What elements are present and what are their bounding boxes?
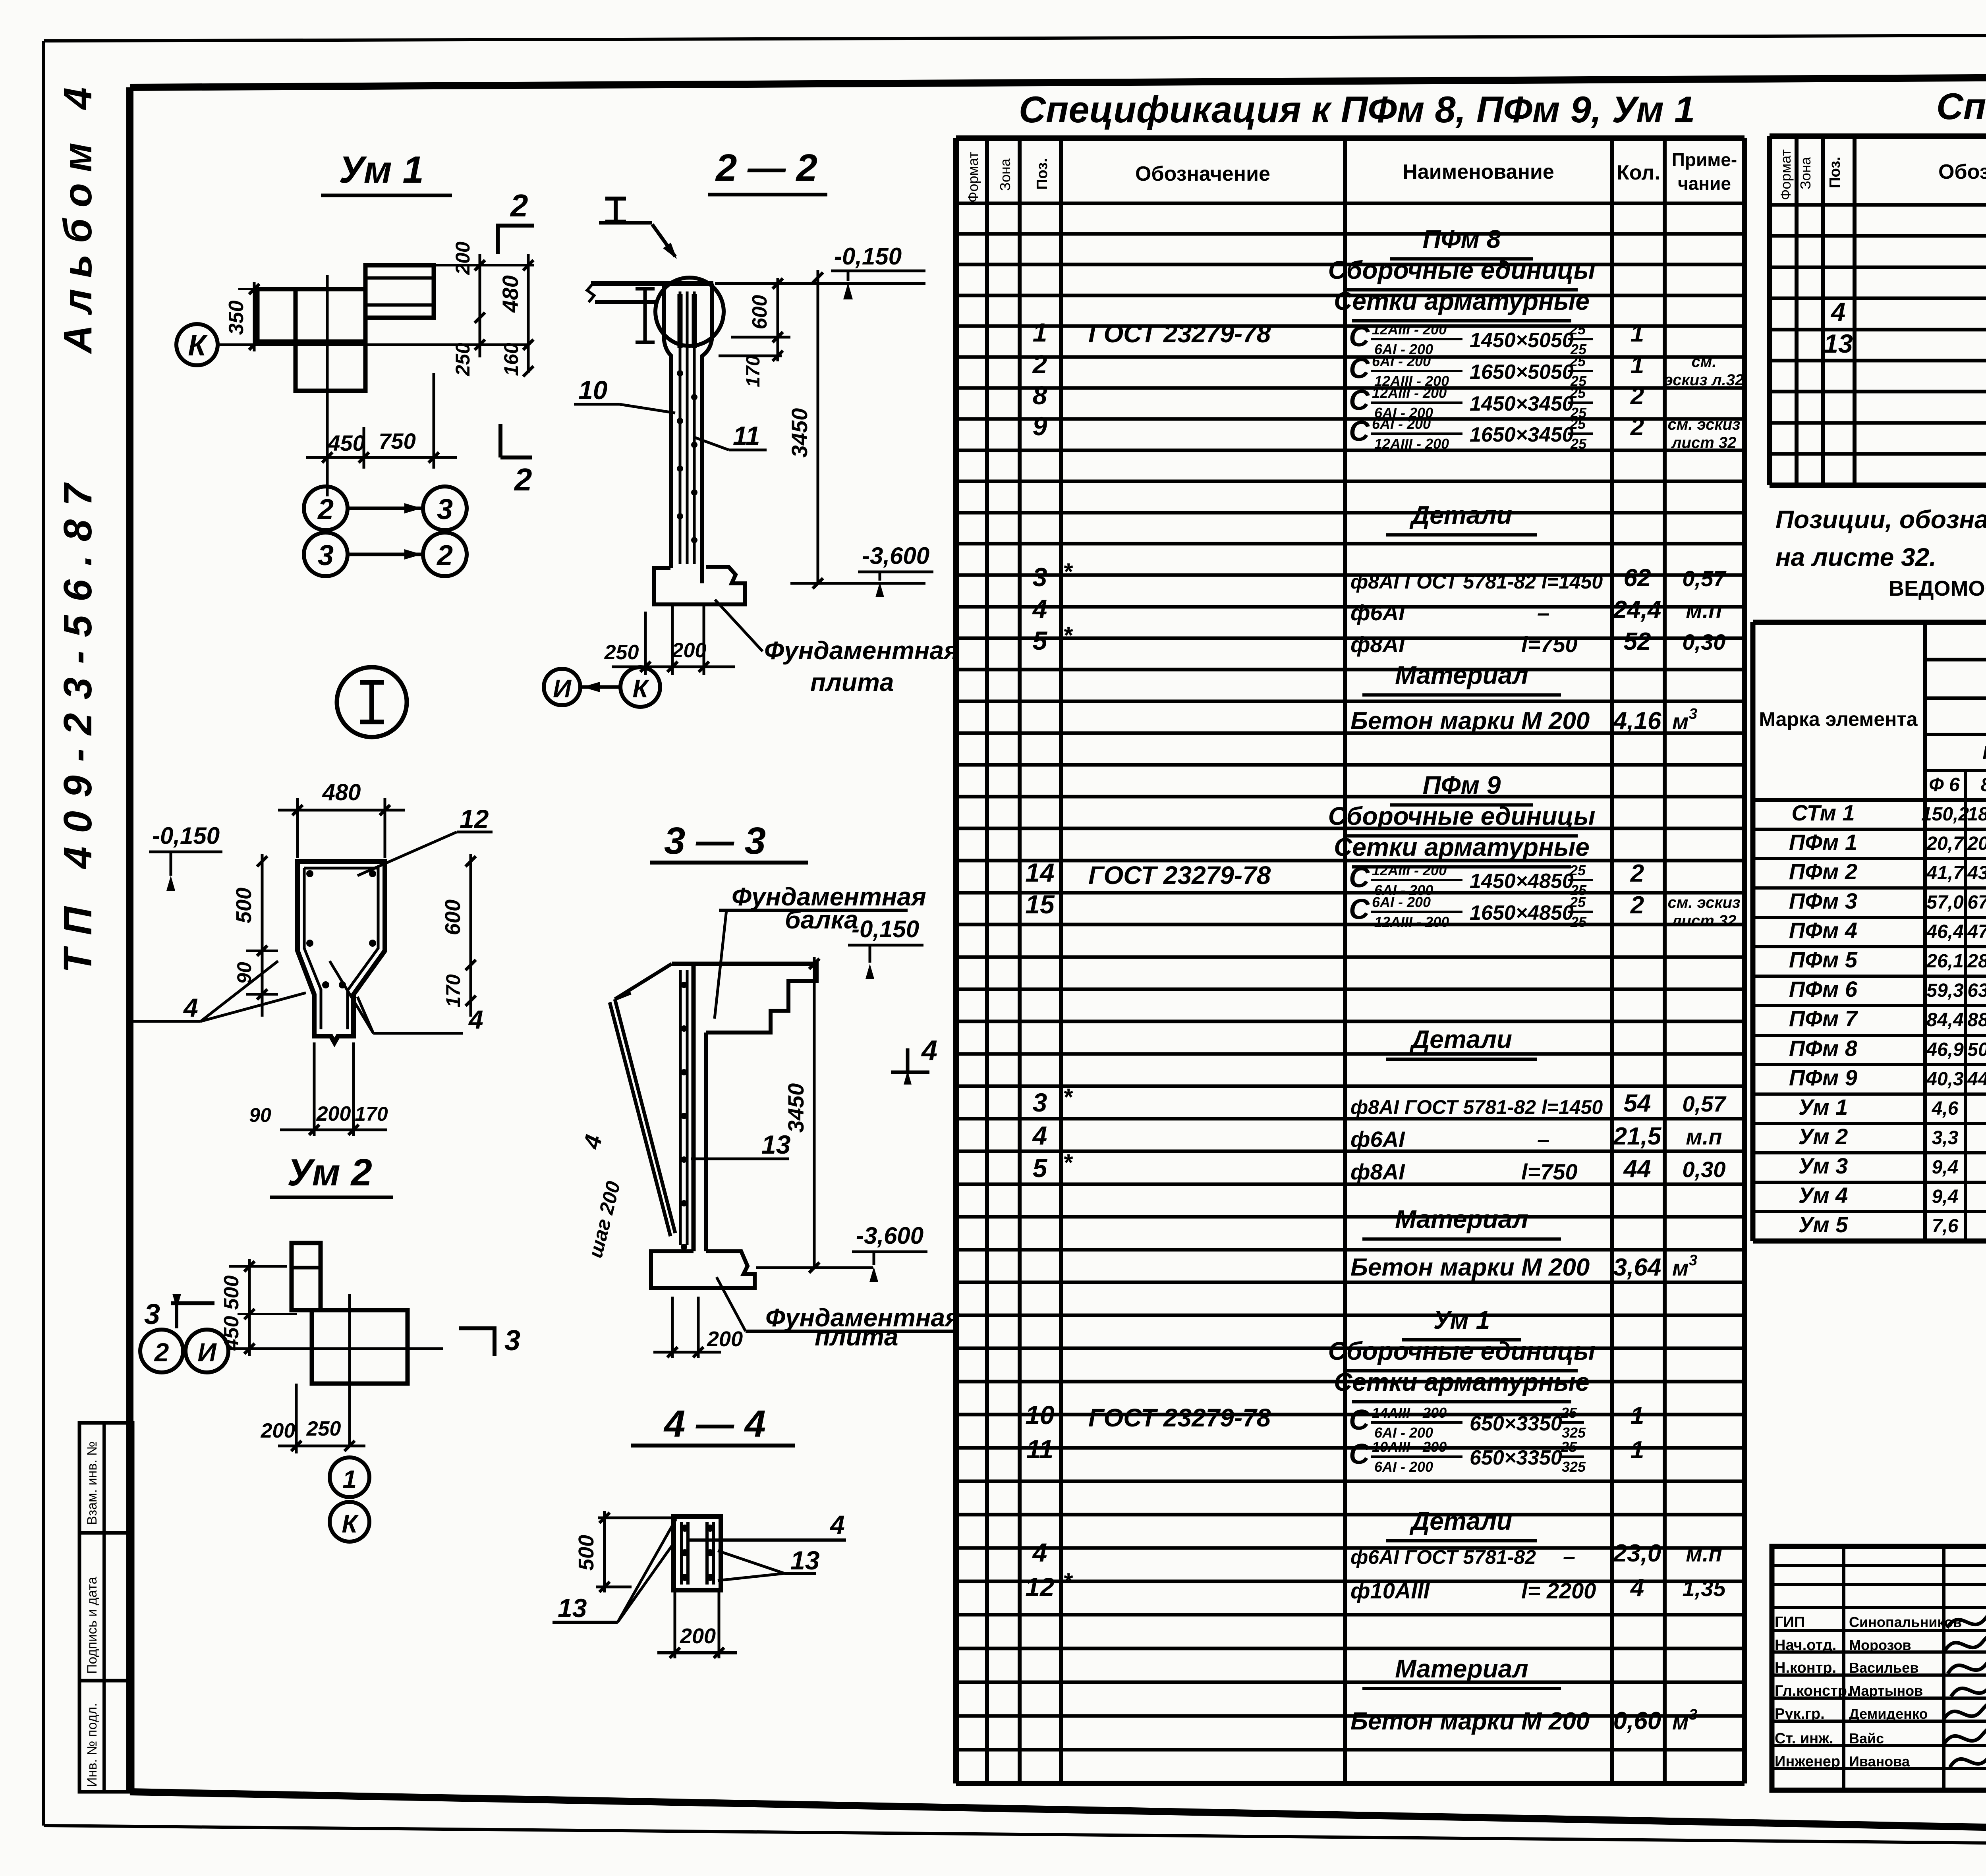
svg-text:25: 25 <box>1570 914 1587 930</box>
svg-text:Бетон марки М 200: Бетон марки М 200 <box>1350 1708 1590 1735</box>
svg-text:52: 52 <box>1624 628 1651 655</box>
svg-text:200: 200 <box>672 639 707 662</box>
svg-text:м: м <box>1672 1709 1688 1734</box>
svg-text:0,30: 0,30 <box>1683 629 1726 654</box>
svg-text:350: 350 <box>225 301 248 335</box>
3-3 slanted formwork <box>615 999 675 1233</box>
svg-text:44,0: 44,0 <box>1967 1069 1986 1090</box>
svg-text:–: – <box>1537 600 1549 625</box>
svg-text:Инв. № подл.: Инв. № подл. <box>85 1703 100 1787</box>
svg-text:1: 1 <box>1631 1402 1644 1430</box>
svg-text:170: 170 <box>442 974 464 1007</box>
svg-text:2: 2 <box>514 462 532 497</box>
svg-text:4: 4 <box>1830 297 1846 326</box>
svg-text:3450: 3450 <box>783 1083 808 1133</box>
svg-text:Васильев: Васильев <box>1849 1660 1918 1676</box>
svg-text:5: 5 <box>1033 626 1048 655</box>
svg-text:6АI - 200: 6АI - 200 <box>1374 1459 1433 1475</box>
svg-text:54: 54 <box>1624 1090 1651 1117</box>
svg-text:Сетки арматурные: Сетки арматурные <box>1334 1368 1590 1396</box>
svg-text:9,4: 9,4 <box>1932 1157 1959 1178</box>
svg-text:2: 2 <box>1630 892 1644 919</box>
svg-text:150,2: 150,2 <box>1921 804 1969 825</box>
svg-text:4: 4 <box>1630 1574 1644 1602</box>
svg-text:3: 3 <box>144 1299 160 1330</box>
svg-text:0,30: 0,30 <box>1683 1157 1726 1182</box>
svg-text:Подпись и дата: Подпись и дата <box>85 1577 100 1674</box>
svg-text:200: 200 <box>452 241 474 275</box>
svg-text:12АIII - 200: 12АIII - 200 <box>1374 914 1449 930</box>
svg-text:см.: см. <box>1692 353 1717 371</box>
svg-text:2: 2 <box>510 188 528 223</box>
svg-text:ф8АI ГОСТ 5781-82 l=1450: ф8АI ГОСТ 5781-82 l=1450 <box>1350 1096 1603 1118</box>
main frame left <box>126 87 133 1792</box>
svg-text:2: 2 <box>1630 382 1644 410</box>
svg-text:84,4: 84,4 <box>1926 1009 1963 1031</box>
svg-text:4,6: 4,6 <box>1932 1098 1959 1119</box>
svg-text:600: 600 <box>441 899 465 935</box>
svg-text:ф8АI: ф8АI <box>1350 1159 1405 1184</box>
dim 200 bottom 3-3 <box>671 1297 674 1358</box>
svg-text:4: 4 <box>1032 1121 1047 1150</box>
svg-text:Инженер: Инженер <box>1775 1753 1840 1770</box>
svg-text:ПФм 4: ПФм 4 <box>1789 918 1857 943</box>
svg-text:1650×5050: 1650×5050 <box>1470 361 1574 384</box>
svg-text:200: 200 <box>261 1419 296 1442</box>
svg-text:200: 200 <box>316 1102 351 1125</box>
svg-text:l=750: l=750 <box>1521 632 1578 657</box>
svg-text:ПФм 5: ПФм 5 <box>1789 947 1858 972</box>
svg-text:25: 25 <box>1569 353 1586 369</box>
svg-text:47,5: 47,5 <box>1967 921 1986 942</box>
svg-text:Синопальников: Синопальников <box>1849 1614 1962 1630</box>
steel table grid <box>1753 620 1986 625</box>
svg-text:-3,600: -3,600 <box>862 542 929 569</box>
svg-text:3450: 3450 <box>787 408 812 458</box>
svg-text:-3,600: -3,600 <box>856 1222 923 1249</box>
axis K horizontal <box>218 344 528 346</box>
svg-text:Иванова: Иванова <box>1849 1753 1910 1770</box>
svg-text:46,9: 46,9 <box>1926 1039 1964 1060</box>
node circles 1 and K <box>330 1457 369 1497</box>
svg-text:7,6: 7,6 <box>1932 1216 1959 1237</box>
svg-text:25: 25 <box>1569 321 1586 338</box>
svg-text:СТм 1: СТм 1 <box>1791 800 1855 825</box>
svg-text:Зона: Зона <box>1797 156 1814 189</box>
svg-text:Взам. инв. №: Взам. инв. № <box>85 1441 100 1525</box>
svg-text:*: * <box>1063 1568 1073 1595</box>
svg-text:ГОСТ 23279-78: ГОСТ 23279-78 <box>1088 1403 1271 1432</box>
svg-text:25: 25 <box>1569 894 1586 910</box>
svg-text:3 — 3: 3 — 3 <box>664 820 766 862</box>
svg-text:Вайс: Вайс <box>1849 1730 1884 1747</box>
svg-text:Бетон марки М 200: Бетон марки М 200 <box>1350 1254 1590 1281</box>
svg-text:170: 170 <box>355 1103 388 1125</box>
svg-text:Ст. инж.: Ст. инж. <box>1775 1730 1833 1747</box>
svg-text:Рук.гр.: Рук.гр. <box>1775 1706 1825 1722</box>
dim 600 / 170 (2-2) <box>731 336 790 339</box>
outer thin frame bottom <box>44 1826 1986 1849</box>
Um1 plan wall rectangles <box>257 289 365 342</box>
section marker 4 top <box>891 1071 929 1074</box>
svg-text:Детали: Детали <box>1409 501 1512 529</box>
svg-text:ф8АI ГОСТ 5781-82 l=1450: ф8АI ГОСТ 5781-82 l=1450 <box>1350 571 1603 593</box>
svg-text:Обозначение: Обозначение <box>1938 160 1986 183</box>
svg-text:50,9: 50,9 <box>1967 1039 1986 1060</box>
svg-text:325: 325 <box>1562 1424 1586 1441</box>
svg-text:эскиз л.32: эскиз л.32 <box>1664 371 1744 389</box>
svg-text:8: 8 <box>1033 380 1047 410</box>
svg-text:0,60: 0,60 <box>1613 1707 1661 1735</box>
svg-text:С: С <box>1349 415 1370 447</box>
svg-text:25: 25 <box>1569 862 1586 878</box>
dims 250 200 bottom 2-2 <box>644 612 647 675</box>
svg-text:Демиденко: Демиденко <box>1849 1706 1928 1722</box>
svg-text:-0,150: -0,150 <box>834 243 902 270</box>
svg-text:1,35: 1,35 <box>1683 1576 1726 1601</box>
svg-text:12АIII - 200: 12АIII - 200 <box>1372 321 1447 338</box>
svg-text:ф6АI: ф6АI <box>1350 600 1405 625</box>
svg-text:26,1: 26,1 <box>1926 951 1963 972</box>
big node circle I <box>337 667 407 737</box>
outer thin frame top <box>44 34 1986 41</box>
svg-text:62: 62 <box>1624 564 1651 592</box>
svg-text:С: С <box>1349 384 1370 416</box>
svg-text:250: 250 <box>452 343 474 376</box>
svg-text:650×3350: 650×3350 <box>1470 1412 1562 1435</box>
dim 480 top <box>296 798 299 858</box>
svg-text:3: 3 <box>1033 562 1047 592</box>
svg-text:1: 1 <box>1033 318 1047 347</box>
svg-text:90: 90 <box>249 1104 271 1126</box>
svg-text:20,8: 20,8 <box>1967 833 1986 854</box>
svg-text:10: 10 <box>1025 1400 1055 1430</box>
svg-text:Морозов: Морозов <box>1849 1637 1911 1653</box>
svg-text:Ум 1: Ум 1 <box>339 149 424 191</box>
3-3 wall verticals <box>692 964 696 1251</box>
svg-text:Материал: Материал <box>1395 1654 1528 1683</box>
svg-text:9: 9 <box>1033 411 1047 441</box>
svg-text:8: 8 <box>1981 774 1986 795</box>
svg-text:650×3350: 650×3350 <box>1470 1446 1562 1469</box>
signatures scribbles <box>1947 1610 1986 1633</box>
svg-text:Гл.констр.: Гл.констр. <box>1775 1683 1851 1699</box>
dim 450 750 bottom <box>326 391 329 496</box>
node circles 2-3 arrows <box>304 486 348 530</box>
svg-text:43,4: 43,4 <box>1967 863 1986 884</box>
svg-text:Ум 3: Ум 3 <box>1799 1153 1848 1178</box>
svg-text:13: 13 <box>558 1593 587 1623</box>
svg-text:160: 160 <box>500 343 522 376</box>
svg-text:1: 1 <box>342 1465 357 1494</box>
dim 3450 (3-3) <box>813 957 816 1268</box>
svg-text:325: 325 <box>1562 1459 1586 1475</box>
svg-text:25: 25 <box>1570 436 1587 452</box>
svg-text:41,7: 41,7 <box>1926 863 1965 884</box>
svg-text:ГОСТ 5781-82: ГОСТ 5781-82 <box>1982 743 1986 764</box>
svg-text:18,0: 18,0 <box>1967 804 1986 825</box>
svg-text:5: 5 <box>1033 1153 1048 1183</box>
foundation plate 2-2 <box>654 567 745 604</box>
svg-text:11: 11 <box>1026 1434 1054 1464</box>
axis vertical <box>326 275 329 457</box>
svg-text:1: 1 <box>1631 320 1644 347</box>
svg-text:0,57: 0,57 <box>1683 566 1727 591</box>
dim 200 (4-4) <box>674 1590 676 1658</box>
svg-text:С: С <box>1349 1438 1370 1470</box>
Um2 plan rectangles <box>292 1243 321 1310</box>
svg-text:Формат: Формат <box>965 152 981 203</box>
svg-text:2: 2 <box>1630 860 1644 887</box>
svg-text:–: – <box>1563 1544 1575 1569</box>
svg-text:Позиции, обозначенные знаком *: Позиции, обозначенные знаком *, см. ведо… <box>1775 505 1986 534</box>
svg-text:12АIII - 200: 12АIII - 200 <box>1374 436 1449 452</box>
svg-text:3,3: 3,3 <box>1932 1127 1959 1148</box>
svg-text:ПФм 8: ПФм 8 <box>1789 1036 1858 1061</box>
title block verticals left part <box>1842 1546 1845 1790</box>
dim 500 and 90 left <box>261 854 264 1017</box>
svg-text:11: 11 <box>733 421 760 450</box>
serif I glyph <box>605 197 626 201</box>
svg-text:ГОСТ 23279-78: ГОСТ 23279-78 <box>1088 861 1271 890</box>
svg-text:l= 2200: l= 2200 <box>1521 1578 1596 1603</box>
svg-text:25: 25 <box>1569 416 1586 432</box>
svg-text:С: С <box>1349 321 1370 353</box>
svg-text:ПФм 9: ПФм 9 <box>1789 1065 1857 1090</box>
wall shaft 2-2 <box>664 284 671 568</box>
svg-text:1450×5050: 1450×5050 <box>1470 329 1574 352</box>
svg-text:4: 4 <box>829 1510 845 1539</box>
svg-text:Сетки арматурные: Сетки арматурные <box>1334 833 1590 861</box>
svg-text:ф6АI: ф6АI <box>1350 1127 1405 1152</box>
left margin stamp boxes <box>79 1423 133 1792</box>
dims 500 450 left <box>248 1259 251 1356</box>
svg-text:500: 500 <box>574 1535 598 1571</box>
svg-text:25: 25 <box>1561 1439 1577 1455</box>
svg-text:И: И <box>197 1338 217 1367</box>
svg-text:С: С <box>1349 1404 1370 1436</box>
svg-text:63,1: 63,1 <box>1967 980 1986 1001</box>
svg-text:ф8АI: ф8АI <box>1350 632 1405 657</box>
dims 200 250 bottom <box>295 1384 298 1453</box>
svg-text:–: – <box>1537 1127 1549 1152</box>
svg-text:Сборочные единицы: Сборочные единицы <box>1328 802 1596 830</box>
svg-text:750: 750 <box>379 428 415 454</box>
dim 350 left <box>253 282 256 351</box>
svg-text:ф6АI ГОСТ 5781-82: ф6АI ГОСТ 5781-82 <box>1350 1546 1536 1568</box>
svg-text:Марка элемента: Марка элемента <box>1759 708 1918 730</box>
svg-text:Мартынов: Мартынов <box>1849 1683 1923 1699</box>
svg-text:l=750: l=750 <box>1521 1159 1578 1184</box>
svg-text:Детали: Детали <box>1409 1025 1512 1054</box>
svg-text:13: 13 <box>1824 329 1853 358</box>
svg-text:Поз.: Поз. <box>1827 156 1843 188</box>
svg-text:23,0: 23,0 <box>1613 1540 1661 1567</box>
title block horizontal rows left <box>1772 1564 1986 1567</box>
svg-text:15: 15 <box>1025 890 1055 919</box>
svg-text:3: 3 <box>1689 706 1697 722</box>
svg-text:3: 3 <box>1033 1088 1047 1117</box>
svg-text:600: 600 <box>748 295 771 330</box>
svg-text:0,57: 0,57 <box>1683 1091 1727 1116</box>
svg-text:1450×3450: 1450×3450 <box>1470 392 1574 415</box>
bulb top of wall <box>655 278 724 346</box>
3-3 top slab and beam profile <box>672 962 817 966</box>
svg-text:500: 500 <box>232 888 256 923</box>
svg-text:500: 500 <box>220 1276 243 1310</box>
svg-text:см. эскиз: см. эскиз <box>1668 894 1741 911</box>
svg-text:14АIII - 200: 14АIII - 200 <box>1372 1405 1447 1421</box>
svg-text:57,0: 57,0 <box>1926 892 1964 913</box>
svg-text:2: 2 <box>317 494 334 525</box>
svg-text:К: К <box>632 674 649 703</box>
svg-text:200: 200 <box>707 1327 743 1351</box>
svg-text:59,3: 59,3 <box>1926 980 1964 1001</box>
svg-text:12: 12 <box>1025 1572 1055 1602</box>
section marker 2 (top) <box>496 224 534 228</box>
svg-text:4 — 4: 4 — 4 <box>663 1403 766 1445</box>
svg-text:ПФм 7: ПФм 7 <box>1789 1006 1858 1031</box>
svg-text:ПФм 3: ПФм 3 <box>1789 888 1857 913</box>
svg-text:480: 480 <box>322 780 361 805</box>
svg-text:4,16: 4,16 <box>1613 707 1661 735</box>
svg-text:13: 13 <box>790 1546 819 1575</box>
bottom dims 90 200 170 <box>313 1042 316 1136</box>
svg-text:250: 250 <box>306 1417 341 1440</box>
svg-text:Поз.: Поз. <box>1034 158 1051 189</box>
svg-text:Ум 5: Ум 5 <box>1799 1212 1849 1237</box>
svg-text:10АIII - 200: 10АIII - 200 <box>1372 1439 1447 1455</box>
beam bottom line 2-2 <box>595 300 657 304</box>
svg-text:м: м <box>1672 709 1688 734</box>
svg-text:14: 14 <box>1025 858 1054 887</box>
svg-text:4: 4 <box>468 1005 483 1034</box>
axis circle K <box>176 324 218 365</box>
top slab line 2-2 <box>591 281 713 286</box>
svg-text:4: 4 <box>1032 1538 1047 1567</box>
dim 600 and 170 right <box>469 854 472 1017</box>
svg-text:И: И <box>553 674 572 703</box>
svg-text:Детали: Детали <box>1409 1507 1512 1535</box>
svg-text:м: м <box>1672 1255 1688 1280</box>
svg-text:Сборочные единицы: Сборочные единицы <box>1328 256 1596 284</box>
svg-text:200: 200 <box>680 1624 716 1648</box>
svg-text:м.п: м.п <box>1686 598 1722 623</box>
svg-text:м.п: м.п <box>1686 1541 1722 1566</box>
svg-text:1650×4850: 1650×4850 <box>1470 901 1574 924</box>
svg-text:12: 12 <box>460 804 489 834</box>
svg-text:Спецификация к: Спецификация к <box>1936 85 1986 127</box>
main frame bottom <box>130 1792 1986 1839</box>
svg-text:ВЕДОМОСТЬ РАСХОДА СТАЛИ НА: ВЕДОМОСТЬ РАСХОДА СТАЛИ НА ЭЛЕМЕНТ, кг <box>1889 577 1986 600</box>
svg-text:1450×4850: 1450×4850 <box>1470 870 1574 893</box>
svg-text:9,4: 9,4 <box>1932 1186 1959 1207</box>
svg-text:ПФм 6: ПФм 6 <box>1789 977 1858 1002</box>
svg-text:25: 25 <box>1561 1405 1577 1421</box>
svg-text:Ум 4: Ум 4 <box>1799 1183 1848 1208</box>
svg-text:ПФм 2: ПФм 2 <box>1789 859 1857 884</box>
svg-text:Ум 2: Ум 2 <box>1799 1124 1848 1149</box>
svg-text:13: 13 <box>761 1130 790 1159</box>
pentagon wall section <box>298 861 385 1042</box>
svg-text:Обозначение: Обозначение <box>1135 162 1270 185</box>
section marker 3 right <box>459 1326 496 1330</box>
svg-text:Альбом 4: Альбом 4 <box>56 76 100 355</box>
svg-text:450: 450 <box>327 430 365 455</box>
svg-text:21,5: 21,5 <box>1613 1123 1662 1150</box>
svg-text:46,4: 46,4 <box>1926 921 1963 942</box>
svg-text:12АIII - 200: 12АIII - 200 <box>1372 385 1447 401</box>
svg-text:2: 2 <box>1630 413 1644 441</box>
central spec table grid <box>953 138 959 1783</box>
svg-text:88,0: 88,0 <box>1967 1009 1986 1031</box>
svg-text:44: 44 <box>1623 1155 1651 1183</box>
svg-text:ПФм 1: ПФм 1 <box>1789 830 1857 855</box>
svg-text:Материал: Материал <box>1395 661 1528 689</box>
svg-text:Ф 6: Ф 6 <box>1929 774 1960 795</box>
svg-text:К: К <box>188 329 208 362</box>
svg-text:ПФм 9: ПФм 9 <box>1423 771 1501 799</box>
svg-text:Кол.: Кол. <box>1617 161 1660 184</box>
svg-text:1650×3450: 1650×3450 <box>1470 423 1574 446</box>
crane beam I section <box>636 287 655 291</box>
svg-text:лист 32: лист 32 <box>1671 434 1737 452</box>
dims 200 480 250 160 right <box>479 254 481 357</box>
dim 3450 (2-2) <box>817 270 819 583</box>
svg-text:Сетки арматурные: Сетки арматурные <box>1334 287 1590 315</box>
svg-text:Ум 1: Ум 1 <box>1799 1094 1848 1119</box>
svg-text:10: 10 <box>578 375 608 405</box>
svg-text:250: 250 <box>604 641 639 664</box>
svg-text:плита: плита <box>810 668 894 697</box>
svg-text:ГИП: ГИП <box>1775 1614 1805 1631</box>
svg-text:3: 3 <box>1689 1706 1697 1723</box>
svg-text:20,7: 20,7 <box>1926 833 1965 854</box>
svg-text:6АI - 200: 6АI - 200 <box>1372 416 1431 432</box>
svg-text:Ум 1: Ум 1 <box>1433 1306 1490 1334</box>
svg-text:28,4: 28,4 <box>1967 951 1986 972</box>
node circles 2 and I <box>140 1330 183 1372</box>
svg-text:ТП 409-23-56.87: ТП 409-23-56.87 <box>56 470 100 973</box>
svg-text:4: 4 <box>1032 594 1047 623</box>
svg-text:Бетон марки М 200: Бетон марки М 200 <box>1350 707 1590 735</box>
svg-text:Наименование: Наименование <box>1403 160 1554 183</box>
svg-text:см. эскиз: см. эскиз <box>1668 416 1741 433</box>
svg-text:Сборочные единицы: Сборочные единицы <box>1328 1337 1596 1365</box>
main frame top <box>130 75 1986 87</box>
svg-text:С: С <box>1349 353 1370 384</box>
svg-text:6АI - 200: 6АI - 200 <box>1372 894 1431 910</box>
svg-text:*: * <box>1063 1149 1073 1176</box>
svg-text:3: 3 <box>437 494 453 525</box>
svg-text:на листе 32.: на листе 32. <box>1775 543 1936 571</box>
svg-text:24,4: 24,4 <box>1613 596 1661 623</box>
svg-text:Нач.отд.: Нач.отд. <box>1775 1637 1836 1654</box>
svg-text:450: 450 <box>220 1316 243 1351</box>
section marker 2 (bottom) <box>500 455 532 459</box>
svg-text:*: * <box>1063 558 1073 585</box>
dim 500 (4-4) <box>603 1511 606 1592</box>
svg-text:3: 3 <box>1689 1252 1697 1269</box>
svg-text:40,3: 40,3 <box>1926 1069 1964 1090</box>
svg-text:-0,150: -0,150 <box>152 822 220 849</box>
svg-text:ПФм 8: ПФм 8 <box>1423 225 1501 253</box>
svg-text:1: 1 <box>1631 1436 1644 1464</box>
svg-text:Зона: Зона <box>997 158 1013 191</box>
right spec table grid <box>1767 136 1772 485</box>
svg-text:2 — 2: 2 — 2 <box>715 147 817 189</box>
outer thin frame left <box>42 41 45 1826</box>
